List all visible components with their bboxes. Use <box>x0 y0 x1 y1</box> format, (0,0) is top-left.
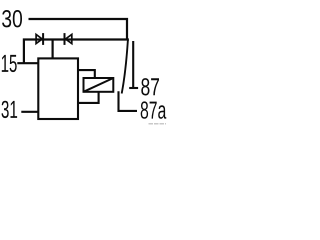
contact 87 with terminal bar <box>132 41 134 88</box>
wire coil bottom to relay box <box>78 92 99 103</box>
relay box K1 <box>38 58 78 119</box>
terminal label 87 <box>141 78 159 95</box>
terminal label 15 <box>2 55 17 72</box>
diode V1 <box>36 33 43 45</box>
wire 15 lead <box>17 62 38 64</box>
switch lever <box>122 40 128 94</box>
terminal label 31 <box>2 101 18 118</box>
relay coil (rect with diagonal) <box>84 78 114 92</box>
wire diode midpoint tap to relay box <box>51 40 53 58</box>
terminal label 30 <box>2 10 22 27</box>
wire diode branch <box>24 40 129 64</box>
diode V2 <box>65 33 72 45</box>
watermark <box>149 123 167 125</box>
terminal label 87a <box>141 101 167 118</box>
wire 31 lead <box>21 111 38 113</box>
wire coil top to relay box <box>78 70 95 78</box>
wire 87a lead <box>119 91 138 111</box>
wire from 30 to switch pivot <box>29 19 128 40</box>
